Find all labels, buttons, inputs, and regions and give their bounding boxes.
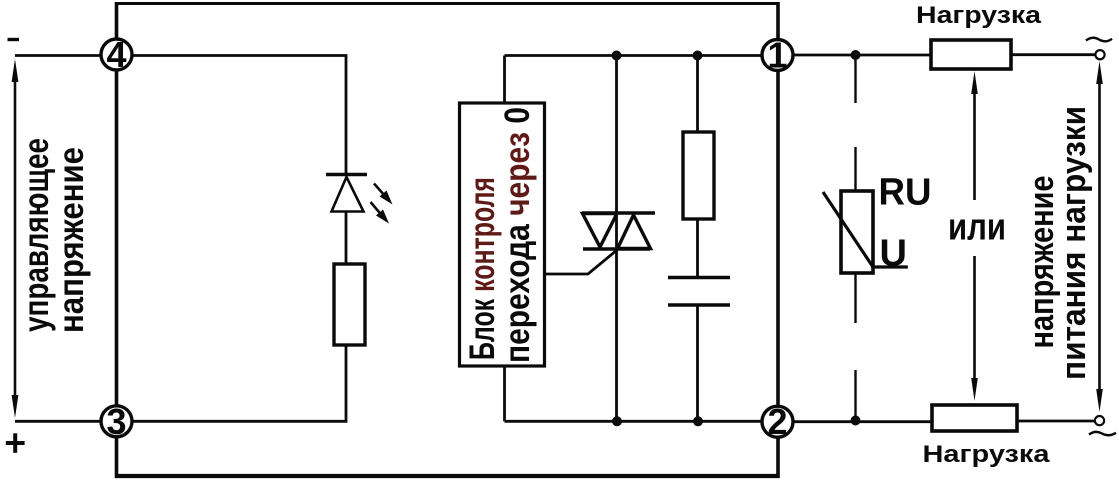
wire load top right — [1011, 53, 1096, 56]
svg-text:Нагрузка: Нагрузка — [923, 441, 1051, 468]
capacitor C1 — [668, 278, 730, 306]
wire triac vertical — [615, 56, 618, 422]
tilde top — [1086, 38, 1112, 42]
wire T1 to load — [794, 54, 931, 57]
wire block bottom — [503, 366, 506, 421]
svg-text:4: 4 — [106, 34, 126, 75]
junction top triac — [612, 51, 622, 61]
wire block top — [503, 56, 506, 104]
svg-text:питания нагрузки: питания нагрузки — [1055, 106, 1093, 380]
resistor R1 — [334, 264, 365, 345]
ac source terminal bottom — [1095, 416, 1104, 425]
dashed wire varistor bottom — [854, 274, 856, 418]
wire top bus — [505, 54, 762, 57]
wire snubber vertical top — [696, 56, 699, 133]
gate wire — [545, 250, 617, 274]
junction varistor top — [851, 50, 861, 60]
wire bottom bus — [505, 420, 762, 423]
svg-text:управляющее: управляющее — [17, 138, 56, 332]
LED VD1 — [326, 175, 367, 212]
relay body outline — [115, 2, 780, 478]
wire load bottom right — [1017, 420, 1095, 423]
wire T2 to load — [794, 420, 932, 423]
wire control bottom — [15, 420, 101, 423]
tilde bottom — [1089, 432, 1116, 435]
svg-text:RU: RU — [879, 172, 932, 214]
zero-cross control block — [460, 103, 545, 366]
minus polarity mark — [8, 38, 20, 41]
junction bottom snubber — [693, 416, 703, 426]
wire LED to resistor — [345, 212, 348, 265]
terminal 4 — [101, 34, 132, 75]
resistor R2 snubber — [683, 132, 714, 219]
junction bottom triac — [612, 416, 622, 426]
or arrow up — [971, 71, 978, 200]
svg-text:перехода через 0: перехода через 0 — [498, 107, 537, 363]
ac source terminal top — [1095, 50, 1104, 59]
svg-text:3: 3 — [106, 401, 126, 442]
plus polarity mark — [6, 433, 25, 453]
wire capacitor to bottom — [696, 305, 699, 421]
varistor RU — [823, 191, 908, 273]
junction top snubber — [693, 51, 703, 61]
svg-text:2: 2 — [767, 401, 787, 442]
terminal 1 — [762, 35, 793, 76]
svg-text:или: или — [948, 207, 1006, 249]
or arrow down — [971, 256, 978, 401]
wire resistor to capacitor — [696, 219, 699, 277]
terminal 3 — [101, 401, 132, 442]
terminal 2 — [762, 401, 793, 442]
svg-text:U: U — [880, 233, 907, 275]
supply voltage double arrow — [1096, 61, 1103, 412]
svg-text:Нагрузка: Нагрузка — [916, 2, 1042, 29]
wire control top — [15, 54, 101, 57]
svg-text:Блок контроля: Блок контроля — [463, 177, 502, 360]
dashed wire varistor top — [854, 59, 856, 191]
svg-text:1: 1 — [767, 35, 787, 76]
load resistor bottom — [932, 405, 1017, 431]
wire T4 to LED — [133, 56, 346, 174]
svg-text:напряжение: напряжение — [52, 147, 91, 333]
junction varistor bottom — [851, 416, 861, 426]
triac VS1 — [582, 213, 655, 249]
LED light arrows — [371, 184, 393, 224]
load resistor top — [931, 40, 1011, 69]
wire resistor to T3 — [133, 345, 346, 421]
control voltage double arrow — [12, 59, 19, 418]
